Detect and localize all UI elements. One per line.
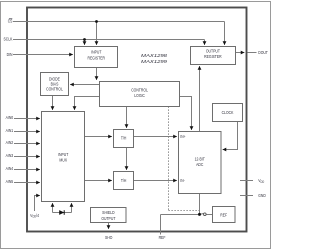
svg-text:IN-: IN- <box>180 179 185 183</box>
svg-text:AIN5: AIN5 <box>6 179 14 185</box>
svg-text:INPUT: INPUT <box>58 152 69 158</box>
svg-text:AIN3: AIN3 <box>6 153 14 159</box>
svg-text:AIN2: AIN2 <box>6 140 14 146</box>
svg-text:T/H: T/H <box>121 135 127 141</box>
svg-text:CLOCK: CLOCK <box>222 110 234 116</box>
svg-text:AIN0: AIN0 <box>6 115 14 121</box>
svg-text:REF: REF <box>159 235 166 241</box>
svg-text:AIN4: AIN4 <box>6 166 14 172</box>
svg-text:T/H: T/H <box>121 178 127 184</box>
svg-text:REGISTER: REGISTER <box>204 54 222 60</box>
svg-text:LOGIC: LOGIC <box>134 93 145 99</box>
svg-text:INPUT: INPUT <box>91 49 102 55</box>
svg-text:ADC: ADC <box>196 162 203 168</box>
svg-text:REF: REF <box>220 212 227 218</box>
svg-text:12-BIT: 12-BIT <box>195 156 206 162</box>
svg-text:REGISTER: REGISTER <box>88 55 106 61</box>
svg-text:MAX1298: MAX1298 <box>141 53 167 58</box>
svg-text:SCLK: SCLK <box>4 36 13 42</box>
svg-text:DIN: DIN <box>7 51 13 57</box>
svg-text:MAX1299: MAX1299 <box>141 59 167 64</box>
svg-text:MUX: MUX <box>59 157 67 163</box>
svg-text:AIN1: AIN1 <box>6 128 14 134</box>
svg-text:OUTPUT: OUTPUT <box>206 48 221 54</box>
svg-text:GND: GND <box>258 193 266 199</box>
svg-text:IN+: IN+ <box>180 135 185 139</box>
svg-text:CONTROL: CONTROL <box>131 87 148 93</box>
svg-text:DOUT: DOUT <box>258 50 268 56</box>
svg-text:CONTROL: CONTROL <box>46 86 63 92</box>
svg-text:OUTPUT: OUTPUT <box>101 215 116 221</box>
svg-text:SHO: SHO <box>105 235 112 241</box>
svg-text:SHIELD: SHIELD <box>102 210 115 216</box>
